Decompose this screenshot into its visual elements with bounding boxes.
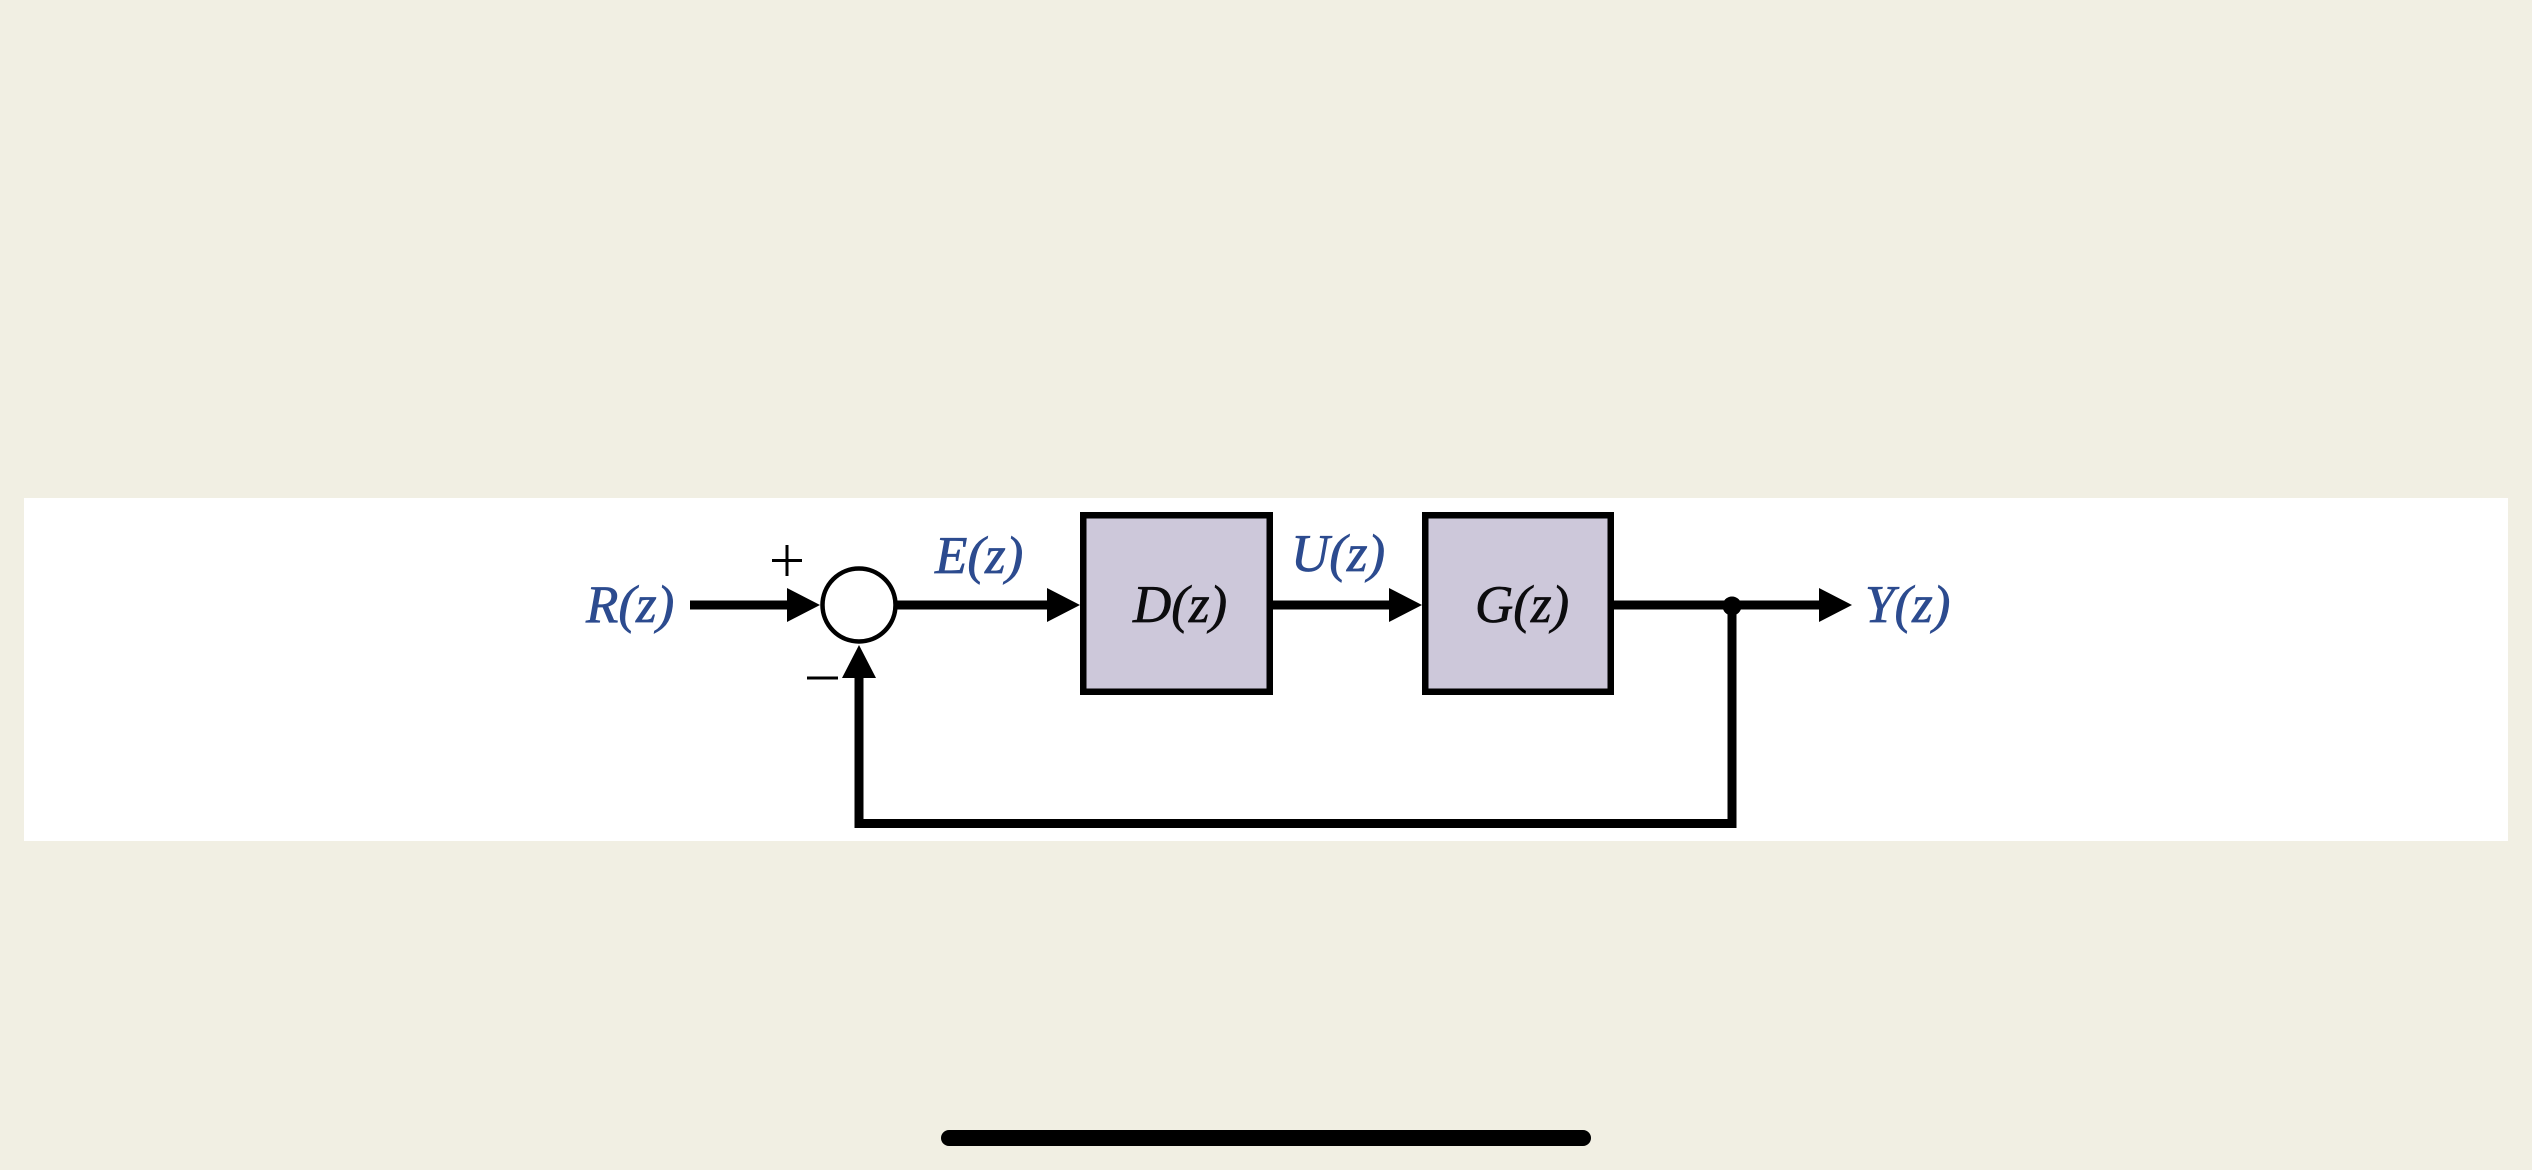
minus sign at summing junction: [807, 677, 838, 680]
wire summing junction to D(z): [897, 601, 1053, 610]
svg-text:D(z): D(z): [1132, 576, 1227, 634]
arrowhead into D(z): [1047, 588, 1080, 622]
block D(z) controller: [1083, 515, 1270, 692]
wire G(z) to output: [1614, 601, 1825, 610]
svg-text:R(z): R(z): [585, 576, 674, 634]
arrowhead to Y(z): [1819, 588, 1852, 622]
block G(z) plant: [1425, 515, 1611, 692]
arrowhead into G(z): [1389, 588, 1422, 622]
wire R(z) to summing junction: [690, 601, 792, 610]
wire D(z) to G(z): [1273, 601, 1395, 610]
svg-text:Y(z): Y(z): [1865, 576, 1950, 634]
junction node dot: [1723, 597, 1742, 616]
arrowhead into summing junction: [787, 588, 820, 622]
home indicator bar: [941, 1130, 1591, 1146]
white diagram band: [24, 498, 2508, 841]
summing junction circle: [823, 569, 896, 642]
feedback wire from node down, left, and up to summing junction: [859, 605, 1732, 824]
svg-text:G(z): G(z): [1475, 576, 1569, 634]
svg-text:E(z): E(z): [934, 527, 1023, 585]
plus sign at summing junction: [772, 545, 802, 576]
svg-text:U(z): U(z): [1291, 525, 1385, 583]
arrowhead into bottom of summing junction: [842, 645, 876, 678]
